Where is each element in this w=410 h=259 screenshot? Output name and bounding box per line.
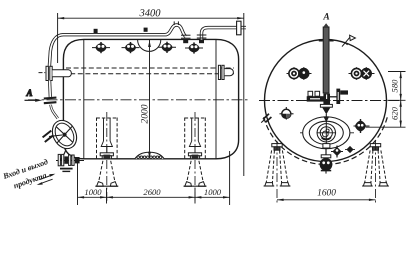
support leg left below tank (hidden cone) — [95, 161, 118, 186]
side pipe flange on left nozzle — [46, 66, 48, 80]
dim 580/620 extensions — [388, 71, 406, 73]
section arrow A (left view) — [25, 88, 43, 102]
bottom dim line — [78, 196, 230, 198]
valve cluster on standpipe — [307, 89, 348, 105]
leg centerline left — [106, 112, 108, 203]
dim 3400 extension left — [57, 13, 59, 63]
left nozzle stub into tank — [52, 70, 71, 77]
svg-text:A: A — [26, 88, 33, 98]
svg-text:1600: 1600 — [317, 189, 336, 199]
top nozzle diamond 1 — [92, 42, 110, 53]
leg centerline right — [194, 112, 196, 203]
nozzle pair right — [349, 67, 375, 80]
top pipe long run with left bend (outer) — [49, 25, 185, 66]
svg-text:2600: 2600 — [143, 187, 161, 197]
dim 580/620 line — [400, 72, 402, 128]
tank right weld seam — [215, 39, 217, 158]
valve body left of handwheel — [43, 131, 62, 142]
internal support leg left (dashed) — [97, 118, 118, 159]
bottom sump mound — [135, 152, 164, 159]
pipe from flange to handwheel — [51, 105, 58, 119]
riser flange A — [181, 35, 191, 43]
tank horizontal centerline — [28, 99, 250, 101]
handwheel — [48, 116, 82, 153]
support leg left mount pad — [100, 153, 113, 159]
left pipe lower segment (outer) — [48, 81, 52, 98]
clamp mark on pipe 1 — [94, 29, 98, 33]
right leg centerline right — [375, 141, 377, 205]
internal pipe right nozzle flange — [218, 65, 220, 79]
small nozzle circle left — [280, 107, 294, 120]
top pipe long run (inner white) — [49, 25, 185, 66]
diamond fitting right — [354, 119, 370, 133]
top nozzle diamond 3 — [158, 42, 176, 53]
support leg right mount pad — [188, 153, 201, 159]
right view centerline — [259, 100, 399, 102]
nozzle pair left — [287, 67, 312, 80]
product flow double arrow — [37, 174, 56, 185]
product inlet/outlet fitting — [56, 154, 84, 171]
level gauge flag — [342, 36, 351, 46]
bottom dim extension x=106.5 — [106, 188, 108, 204]
bottom dim extension x=77.5 — [77, 162, 79, 206]
svg-text:3400: 3400 — [138, 8, 161, 19]
bottom drain fitting right view — [320, 149, 333, 174]
internal pipe dashed upper wall — [66, 67, 234, 69]
svg-text:A: A — [322, 13, 329, 23]
tank left weld seam — [83, 39, 85, 158]
dim 2000 line — [149, 40, 151, 159]
manhole centerline — [300, 132, 354, 134]
diamond fitting lower solid — [345, 146, 355, 153]
right view leg left — [264, 144, 291, 186]
standpipe — [323, 27, 329, 93]
clamp mark on pipe 2 — [144, 28, 148, 32]
standpipe lower flanges and arrow — [320, 104, 332, 122]
dim 3400 extension right — [243, 13, 245, 176]
diamond fitting lower open — [331, 146, 343, 158]
discharge L-pipe (inner white) — [202, 28, 247, 41]
right leg centerline left — [276, 141, 278, 205]
discharge flange plate — [237, 21, 241, 35]
tank end circle — [265, 40, 387, 162]
hump bolt ticks — [173, 21, 175, 25]
bottom dim extension x=229.6 — [229, 151, 231, 205]
svg-text:1000: 1000 — [84, 187, 102, 197]
svg-text:1000: 1000 — [204, 187, 222, 197]
top nozzle diamond 2 — [122, 42, 140, 53]
svg-text:620: 620 — [389, 106, 399, 120]
valve flange pair on left pipe — [44, 98, 57, 99]
riser flange B — [197, 35, 207, 43]
dim 1600 line — [277, 199, 376, 201]
pipe handwheel to bottom fitting — [60, 150, 66, 161]
svg-text:580: 580 — [389, 79, 399, 93]
manhole rings — [303, 117, 350, 149]
bottom dim extension x=195 — [194, 188, 196, 204]
svg-text:2000: 2000 — [139, 104, 150, 123]
internal pipe dashed lower wall — [55, 73, 234, 75]
discharge L-pipe (outer) — [202, 28, 247, 41]
manhole dome arc on tank top — [138, 40, 161, 52]
top nozzle diamond 4 — [185, 42, 203, 53]
lower-left nozzle stub on circle — [261, 114, 271, 123]
support leg right below tank (hidden cone) — [184, 161, 207, 186]
internal support leg right (dashed) — [185, 118, 206, 159]
dim 3400 line — [58, 17, 244, 19]
nozzle axis dash left of flange — [39, 72, 46, 74]
insulation dashed arc — [264, 117, 388, 164]
tank body outline — [63, 39, 238, 158]
right view leg right — [362, 144, 389, 186]
